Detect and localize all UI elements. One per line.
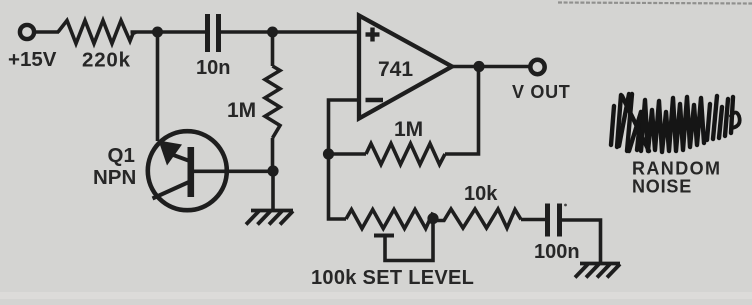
resistor R 10k [433,209,521,228]
scan light band bottom [0,292,752,299]
resistor R 220k [58,21,136,44]
potentiometer RV 100k track [346,210,433,229]
transistor Q1 collector line [153,182,191,199]
node A junction dot [152,27,163,38]
svg-text:220k: 220k [82,49,131,72]
svg-text:100k SET LEVEL: 100k SET LEVEL [311,267,474,289]
resistor R 1M feedback [366,144,445,165]
wire feedback resistor to output node [445,67,479,155]
wire capacitor to right ground [562,220,601,263]
svg-text:100n: 100n [534,241,580,263]
speck near 100n [564,204,567,207]
node F pot junction dot [427,213,438,224]
op-amp minus input symbol [366,98,384,103]
terminal V OUT [530,60,544,74]
wire op-amp output [452,65,530,69]
resistor R 1M vertical [265,66,280,138]
random noise scribble [611,94,740,152]
wire node D down to pot line [329,154,347,219]
node B junction dot [267,27,278,38]
svg-text:1M: 1M [394,118,423,141]
capacitor C 10n plates [208,14,219,52]
wire node C down to ground [271,171,275,210]
svg-text:10n: 10n [196,57,230,79]
wire node B down to R 1M vertical [271,32,275,66]
wire transistor base to node C [194,170,273,174]
op-amp U1 741 triangle [359,16,452,119]
ground left [246,211,293,225]
wire op-amp inverting input to node D [329,100,360,150]
scan edge artifact top right [558,3,752,4]
svg-text:V OUT: V OUT [512,82,571,102]
ground right [575,264,620,278]
wire capacitor to node B [221,30,273,34]
terminal +15V [20,25,34,39]
svg-text:+15V: +15V [8,48,57,71]
transistor Q1 emitter arrow [159,141,192,166]
wire R1M to node C [271,138,275,171]
wire R220k to node A [131,30,158,34]
svg-text:741: 741 [378,58,413,81]
node C junction dot [267,165,278,176]
svg-text:1M: 1M [227,99,256,122]
svg-text:NPN: NPN [93,166,136,189]
capacitor C 100n plates [548,204,560,237]
svg-text:NOISE: NOISE [632,177,692,197]
wire node B to op-amp + input [273,30,360,34]
wire node A down to transistor emitter [156,32,160,141]
svg-text:RANDOM: RANDOM [632,159,721,179]
wire R10k to capacitor 100n [521,218,545,222]
svg-text:Q1: Q1 [108,144,135,167]
svg-text:10k: 10k [464,183,498,205]
op-amp plus input symbol [366,28,380,42]
wire terminal to R 220k [35,30,60,34]
potentiometer wiper tap [374,222,433,261]
transistor Q1 circle [148,131,227,210]
wire node D to feedback resistor [329,152,367,156]
node D junction dot [323,148,334,159]
wire node A to capacitor C 10n [158,30,206,34]
node E output junction dot [473,61,484,72]
transistor Q1 base bar [188,147,195,197]
